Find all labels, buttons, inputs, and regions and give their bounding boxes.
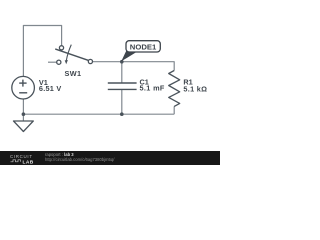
capacitor C1 [108, 83, 137, 89]
svg-text:6.51 V: 6.51 V [39, 84, 62, 93]
footer bar [0, 151, 220, 165]
svg-text:5.1 kΩ: 5.1 kΩ [183, 85, 207, 94]
node NODE1 flag box [126, 41, 160, 52]
wire: bottom rail [23, 113, 174, 115]
junction dot at capacitor/rail [120, 112, 124, 116]
switch SW1 [56, 45, 93, 65]
wire: capacitor top branch [121, 62, 123, 83]
wire: left loop from V1 top to switch top pin [23, 26, 61, 77]
wire: resistor bottom lead [173, 106, 175, 114]
wire: switch left throw stub [48, 61, 57, 63]
footer logo waveform [11, 160, 21, 162]
voltage source V1 [12, 76, 35, 99]
svg-text:http://circuitlab.com/c/6ag738: http://circuitlab.com/c/6ag7380bjm5q/ [45, 157, 115, 162]
svg-text:NODE1: NODE1 [130, 43, 157, 52]
wire: V1 bottom to rail [22, 99, 24, 114]
svg-text:LAB: LAB [23, 159, 34, 165]
ground [14, 114, 34, 131]
resistor R1 [169, 71, 180, 107]
junction dot at V1/ground rail [22, 112, 26, 116]
node NODE1 flag pointer [121, 50, 136, 61]
svg-text:5.1 mF: 5.1 mF [140, 84, 165, 93]
wire: switch right pin to top-right corner, down to resistor [93, 62, 175, 71]
svg-text:CIRCUIT: CIRCUIT [10, 154, 33, 159]
svg-text:SW1: SW1 [65, 69, 82, 78]
wire: capacitor bottom lead [121, 90, 123, 115]
junction dot at node A (top) [120, 60, 124, 64]
